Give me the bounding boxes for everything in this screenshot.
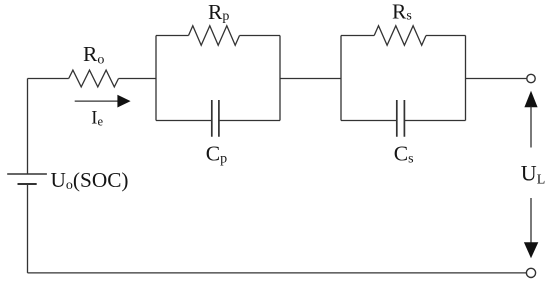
wire: Rp left lead <box>156 35 189 37</box>
svg-text:Ie: Ie <box>91 109 103 129</box>
svg-text:UL: UL <box>521 160 545 187</box>
resistor Ro <box>69 70 119 87</box>
svg-text:Cp: Cp <box>206 141 227 166</box>
wire: Cs right lead <box>404 120 465 122</box>
svg-text:Ro: Ro <box>83 42 104 67</box>
svg-text:Uo(SOC): Uo(SOC) <box>51 168 129 193</box>
wire: RC group 1 left side vertical <box>155 36 157 121</box>
wire: RC group 2 right side vertical <box>465 36 467 121</box>
wire: Rs right lead <box>426 35 466 37</box>
wire: Ro right lead to RC group 1 <box>119 78 157 80</box>
svg-text:Cs: Cs <box>394 141 414 166</box>
wire: UL indicator upper segment <box>530 107 532 148</box>
wire: RC group 2 to positive output terminal <box>466 78 527 80</box>
capacitor Cs <box>397 100 405 137</box>
wire: Cp right lead <box>219 120 280 122</box>
battery Uo negative plate (short) <box>18 183 37 185</box>
wire: RC group 1 right side vertical <box>279 36 281 121</box>
terminal: negative output (open circle) <box>526 268 535 277</box>
svg-text:Rs: Rs <box>392 0 412 23</box>
terminal: positive output (open circle) <box>527 74 535 82</box>
wire: RC group 1 to RC group 2 <box>280 78 341 80</box>
wire: UL indicator lower segment <box>530 198 532 243</box>
arrow: UL upper arrowhead pointing up <box>524 91 537 107</box>
resistor Rs <box>374 26 426 46</box>
battery Uo positive plate (long) <box>7 173 47 175</box>
arrow: current Ie arrowhead <box>117 95 130 108</box>
wire: node A horizontal to resistor Ro left lead <box>28 78 69 80</box>
arrow: current Ie direction (shaft) <box>75 100 119 102</box>
resistor Rp <box>189 26 240 46</box>
wire: Cp left lead <box>156 120 212 122</box>
wire: bottom return from negative terminal to battery <box>28 272 527 274</box>
wire: RC group 2 left side vertical <box>340 36 342 121</box>
wire: left vertical from node A down to battery positive plate <box>27 79 29 175</box>
arrow: UL lower arrowhead pointing down <box>524 242 538 258</box>
wire: Rp right lead <box>240 35 281 37</box>
wire: Cs left lead <box>341 120 397 122</box>
wire: Rs left lead <box>341 35 374 37</box>
svg-text:Rp: Rp <box>208 0 229 24</box>
capacitor Cp <box>212 100 219 137</box>
wire: left vertical from battery negative plate to bottom return <box>27 184 29 273</box>
